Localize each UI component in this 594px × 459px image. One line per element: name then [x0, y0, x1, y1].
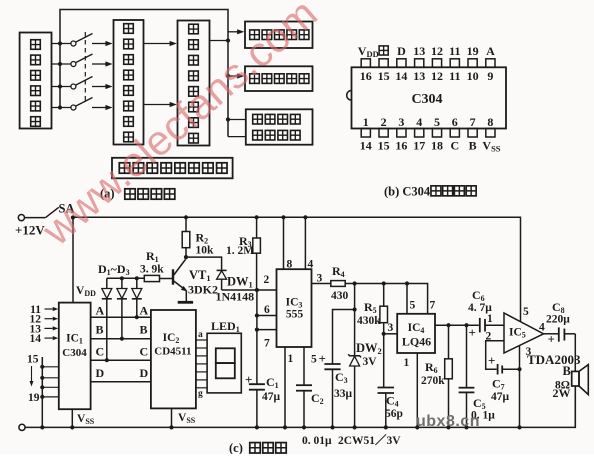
svg-text:10k: 10k — [196, 245, 215, 257]
capacitor C1 47u — [249, 383, 265, 385]
wire: 555 pin 3 output — [312, 283, 331, 285]
wire: R5/C4 node to IC4 pin 3 — [382, 332, 386, 336]
pin 16 lead (top) — [361, 59, 370, 68]
svg-text:+: + — [488, 353, 495, 368]
svg-text:8: 8 — [487, 115, 493, 129]
wire: diode anode bus to R1 — [107, 277, 145, 279]
svg-text:2: 2 — [486, 331, 492, 343]
block: floor number display 楼层数显示 — [245, 22, 313, 49]
node: VT1 collector — [184, 255, 188, 259]
rail junction x=332.5 — [330, 425, 334, 429]
svg-text:2: 2 — [264, 274, 270, 286]
pin 14 lead (top) — [397, 59, 406, 68]
pin 9 lead (top) — [486, 59, 495, 68]
svg-text:6: 6 — [452, 115, 458, 129]
svg-text:33μ: 33μ — [334, 388, 353, 400]
svg-text:C304: C304 — [411, 92, 442, 107]
rail junction x=256.9 — [255, 425, 259, 429]
svg-text:2CW51／3V: 2CW51／3V — [338, 433, 401, 447]
svg-text:A: A — [486, 44, 495, 58]
wire segment f — [196, 379, 207, 381]
rail junction x=519.5 — [517, 425, 521, 429]
switch S2 arm — [76, 54, 93, 63]
svg-text:D: D — [397, 44, 406, 58]
svg-text:15: 15 — [27, 354, 39, 366]
svg-text:D1~D3: D1~D3 — [98, 262, 130, 277]
svg-text:47μ: 47μ — [491, 391, 510, 403]
wire segment b — [196, 347, 207, 349]
pin 3 lead (bottom) — [397, 129, 406, 138]
svg-text:12: 12 — [431, 44, 443, 58]
svg-text:C: C — [140, 345, 149, 359]
svg-text:1: 1 — [288, 353, 294, 365]
pin 12 lead (top) — [432, 59, 441, 68]
pin 5 lead (bottom) — [432, 129, 441, 138]
pin 6 lead (bottom) — [450, 129, 459, 138]
capacitor C5 0.1u — [466, 325, 468, 388]
wire: top feedback line of block diagram — [60, 10, 228, 137]
svg-text:3: 3 — [388, 322, 394, 334]
svg-text:C: C — [96, 345, 105, 359]
resistor R5 430k — [383, 284, 385, 307]
svg-text:10: 10 — [467, 69, 479, 83]
svg-text:4: 4 — [539, 322, 545, 334]
resistor R1 3.9k — [144, 275, 159, 281]
switch S2 contact — [71, 62, 76, 67]
svg-text:555: 555 — [286, 309, 304, 321]
junction pin bus row y=377.8 — [40, 376, 44, 380]
junction D3/A — [135, 315, 139, 319]
wire: IC1 VSS to ground rail — [71, 409, 73, 427]
pin 8 lead (bottom) — [486, 129, 495, 138]
svg-text:2: 2 — [381, 115, 387, 129]
wire: switch 2 to address matrix block — [92, 63, 107, 65]
svg-text:0. 01μ: 0. 01μ — [302, 435, 332, 447]
capacitor C2 0.01u — [296, 384, 312, 386]
wire segment c — [196, 355, 207, 357]
wire: 555 pin 7 stub — [255, 328, 259, 332]
svg-text:11: 11 — [449, 44, 460, 58]
op IC2 CD4511 box — [151, 310, 196, 408]
pin 13 lead (top) — [415, 59, 424, 68]
svg-text:12: 12 — [431, 69, 443, 83]
block: sound alarm / flash alarm 音响报警 闪光报警 — [246, 109, 313, 144]
svg-text:B: B — [563, 364, 571, 378]
switch S3 arm — [76, 77, 93, 86]
diode D2 to net B — [121, 278, 123, 288]
svg-text:4: 4 — [308, 259, 314, 271]
svg-text:3. 9k: 3. 9k — [140, 264, 164, 276]
switch S4 contact — [71, 105, 76, 110]
op IC4 LQ46 box — [397, 314, 435, 353]
svg-text:220μ: 220μ — [546, 314, 570, 326]
svg-text:5: 5 — [410, 300, 416, 312]
svg-text:D: D — [96, 366, 105, 380]
junction on left bus row 3 — [58, 84, 62, 88]
svg-text:A: A — [96, 304, 105, 318]
rail junction x=171.5 — [169, 425, 173, 429]
resistor R4 430 — [331, 281, 345, 287]
svg-text:CD4511: CD4511 — [154, 346, 191, 358]
svg-text:6: 6 — [264, 304, 270, 316]
wire: detection row 3 to switch bus — [52, 86, 71, 88]
svg-text:+: + — [319, 351, 326, 366]
junction pin bus row y=396.9 — [40, 395, 44, 399]
range arrow 15..19 — [31, 366, 33, 381]
svg-text:(c): (c) — [229, 441, 243, 454]
rail junction x=42.3 — [40, 425, 44, 429]
svg-text:+: + — [245, 372, 252, 387]
IC package C304 body — [352, 67, 507, 128]
resistor R3 1.2M — [255, 215, 259, 219]
svg-text:16: 16 — [395, 139, 407, 153]
svg-text:3V: 3V — [363, 356, 378, 368]
pin 7 lead (bottom) — [468, 129, 477, 138]
resistor R2 10k — [185, 217, 187, 231]
wire: 555 pin 5 to C2 — [303, 347, 305, 385]
svg-text:1. 2M: 1. 2M — [226, 245, 254, 257]
block: address matrix control circuit 地址矩阵控制电路 — [114, 20, 144, 145]
wire: +12V top rail — [73, 217, 521, 321]
junction pin bus row y=366.8 — [40, 365, 44, 369]
svg-text:8: 8 — [287, 259, 293, 271]
diode D3 to net A — [136, 278, 138, 288]
svg-text:13: 13 — [413, 69, 425, 83]
rail junction x=385.8 — [384, 425, 388, 429]
svg-text:14: 14 — [360, 139, 372, 153]
wire: collector to DW1 — [186, 257, 222, 270]
svg-text:19: 19 — [28, 392, 40, 404]
wire: R3 node down to C1 and ground, feeding 555 pins 6,7 — [256, 290, 258, 384]
junction on left bus row 4 — [58, 105, 62, 109]
wire: 555 pin 1 to ground — [284, 347, 286, 427]
rail junction x=466.5 — [464, 425, 468, 429]
wire: detection row 2 to switch bus — [52, 63, 71, 65]
rail junction x=448.5 — [446, 425, 450, 429]
svg-text:5: 5 — [523, 306, 529, 318]
svg-text:17: 17 — [413, 139, 425, 153]
block: power auto-switch circuit 电源自动转换电路 — [112, 158, 233, 179]
wire: R1 to VT1 base — [160, 278, 173, 280]
svg-text:15: 15 — [378, 139, 390, 153]
svg-text:B: B — [140, 323, 148, 337]
switch S1 arm — [76, 34, 93, 43]
svg-text:+: + — [469, 325, 476, 340]
svg-text:B: B — [96, 323, 104, 337]
svg-text:16: 16 — [360, 69, 372, 83]
capacitor C4 56p — [383, 334, 385, 388]
svg-text:LQ46: LQ46 — [402, 335, 431, 349]
net C: IC1 to IC2 — [91, 359, 151, 361]
wire: IC2 VSS to rail — [171, 408, 173, 427]
transistor VT1 3DK2 — [172, 269, 174, 284]
svg-text:2W: 2W — [553, 386, 571, 400]
svg-text:ubx8.cn: ubx8.cn — [416, 413, 480, 430]
pin 15 lead (top) — [379, 59, 388, 68]
wire: to alarm block lower — [228, 136, 246, 138]
svg-text:D: D — [140, 366, 149, 380]
svg-text:g: g — [198, 389, 203, 399]
junction D2/B — [120, 337, 124, 341]
wire: 555 pin 4 to rail — [303, 215, 307, 219]
svg-text:11: 11 — [449, 69, 460, 83]
pin 11 lead (top) — [450, 59, 459, 68]
svg-text:C: C — [450, 139, 459, 153]
wire: IC5 pin 3 to ground — [519, 346, 521, 427]
ground (VT1 emitter) — [178, 301, 193, 304]
svg-text:(b) C304: (b) C304 — [384, 185, 431, 199]
wire: IC4 pin 5 to R4 node — [406, 284, 408, 314]
terminal ground left — [19, 424, 25, 430]
svg-text:47μ: 47μ — [262, 391, 281, 403]
wire: detection row 4 to switch bus — [52, 107, 71, 109]
wire: pins15-19 common bus — [41, 357, 43, 427]
wire: switch 3 to address matrix block — [92, 86, 107, 88]
wire: C3 top connection — [333, 310, 355, 365]
svg-text:7: 7 — [264, 338, 270, 350]
wire segment e — [196, 371, 207, 373]
pin 2 lead (bottom) — [379, 129, 388, 138]
switch S1 contact — [71, 41, 76, 46]
wire: switch 4 to address matrix block — [92, 107, 107, 109]
wire: VDD supply to IC1 — [72, 217, 74, 302]
node: +12V rail junction at SA — [71, 215, 75, 219]
wire: matrix to decoder (lower) — [144, 104, 172, 106]
diode DW1 1N4148 — [217, 269, 227, 271]
switch S3 contact — [71, 84, 76, 89]
svg-text:7: 7 — [470, 115, 476, 129]
display LED1 (7-segment) — [207, 333, 241, 393]
svg-text:1: 1 — [363, 115, 369, 129]
svg-text:14: 14 — [395, 69, 407, 83]
terminal +12V — [18, 215, 24, 221]
svg-text:56p: 56p — [385, 408, 403, 420]
switch SA — [25, 217, 46, 219]
junction on left bus row 1 — [58, 41, 62, 45]
op IC1 C304 box — [59, 303, 91, 410]
rail junction x=72.3 — [70, 425, 74, 429]
svg-text:a: a — [198, 330, 203, 340]
wire: detection row 1 to switch bus — [52, 43, 71, 45]
dashed mechanical link of ganged switches — [84, 32, 86, 104]
switch S4 arm — [76, 98, 93, 107]
svg-text:TDA2003: TDA2003 — [527, 352, 581, 367]
wire: IC4 output to C6 — [435, 324, 479, 326]
wire: 555 pin 6 stub — [255, 313, 259, 317]
svg-text:14: 14 — [30, 333, 42, 345]
svg-text:B: B — [469, 139, 477, 153]
zener DW2 3V (2CW51) — [354, 284, 356, 356]
svg-text:C304: C304 — [62, 347, 87, 359]
wire segment a — [196, 339, 207, 341]
svg-text:A: A — [140, 304, 149, 318]
svg-text:9: 9 — [487, 69, 493, 83]
svg-text:4: 4 — [416, 115, 422, 129]
svg-text:3DK2: 3DK2 — [188, 283, 218, 297]
pin-1 notch — [347, 91, 352, 101]
net B: IC1 to IC2 — [91, 338, 151, 340]
wire: to alarm block upper — [226, 117, 230, 121]
svg-text:13: 13 — [413, 44, 425, 58]
wire: R4 output node to IC4 pin7 — [345, 284, 427, 314]
svg-text:3: 3 — [398, 115, 404, 129]
svg-text:1: 1 — [404, 357, 410, 369]
wire: to floor display — [228, 31, 239, 33]
net A: IC1 to IC2 — [91, 316, 151, 318]
capacitor C3 33u — [324, 363, 340, 365]
svg-text:7: 7 — [430, 300, 436, 312]
svg-text:5: 5 — [311, 354, 317, 366]
rail junction x=304 — [302, 425, 306, 429]
svg-text:3: 3 — [317, 273, 323, 285]
svg-text:5: 5 — [434, 115, 440, 129]
svg-text:+: + — [548, 332, 555, 347]
resistor R6 270k — [448, 325, 450, 359]
wire: matrix to decoder (upper) — [144, 43, 172, 45]
wire segment g — [196, 387, 207, 389]
pin 10 lead (top) — [468, 59, 477, 68]
rail junction x=417.3 — [415, 425, 419, 429]
rail junction x=285 — [283, 425, 287, 429]
svg-text:1N4148: 1N4148 — [216, 290, 255, 304]
wire: decoder output bus vertical — [210, 40, 229, 42]
wire: DW1 to 555 pin2 — [222, 289, 277, 291]
svg-text:3: 3 — [526, 346, 532, 358]
diode D1 to net C — [106, 278, 108, 288]
pin 4 lead (bottom) — [415, 129, 424, 138]
junction on left bus row 2 — [58, 62, 62, 66]
block: room number display 房号数显示 — [245, 66, 313, 91]
block: theft detection circuit 盗情检测电路 — [20, 33, 52, 129]
wire: 555 pin 8 to rail — [281, 215, 285, 219]
speaker B 8ohm 2W — [574, 334, 576, 372]
pin function label empty (top row) — [379, 46, 388, 55]
wire: to room display — [226, 74, 230, 78]
op-amp IC5 TDA2003 triangle — [504, 313, 544, 353]
junction pin bus row y=387.3 — [40, 385, 44, 389]
net D: IC1 to IC2 — [91, 381, 151, 383]
svg-text:15: 15 — [378, 69, 390, 83]
wire: IC4 pin 1 to ground — [416, 353, 418, 427]
svg-text:430k: 430k — [357, 315, 381, 327]
svg-text:430: 430 — [331, 290, 349, 302]
junction D1/C — [105, 358, 109, 362]
svg-text:270k: 270k — [421, 375, 445, 387]
wire: IC5 pin 2 to C7 — [486, 341, 504, 370]
svg-text:18: 18 — [431, 139, 443, 153]
wire segment d — [196, 363, 207, 365]
svg-text:19: 19 — [467, 44, 479, 58]
op IC3 555 timer box — [277, 269, 312, 347]
svg-text:LED1: LED1 — [211, 319, 240, 334]
wire: bottom ground rail — [25, 386, 575, 427]
pin 1 lead (bottom) — [361, 129, 370, 138]
rail junction x=354.6 — [353, 425, 357, 429]
block: address decoder driver circuit 地址译码驱动电路 — [178, 21, 210, 146]
svg-text:1: 1 — [487, 313, 493, 325]
wire: switch 1 to address matrix block — [92, 43, 107, 45]
